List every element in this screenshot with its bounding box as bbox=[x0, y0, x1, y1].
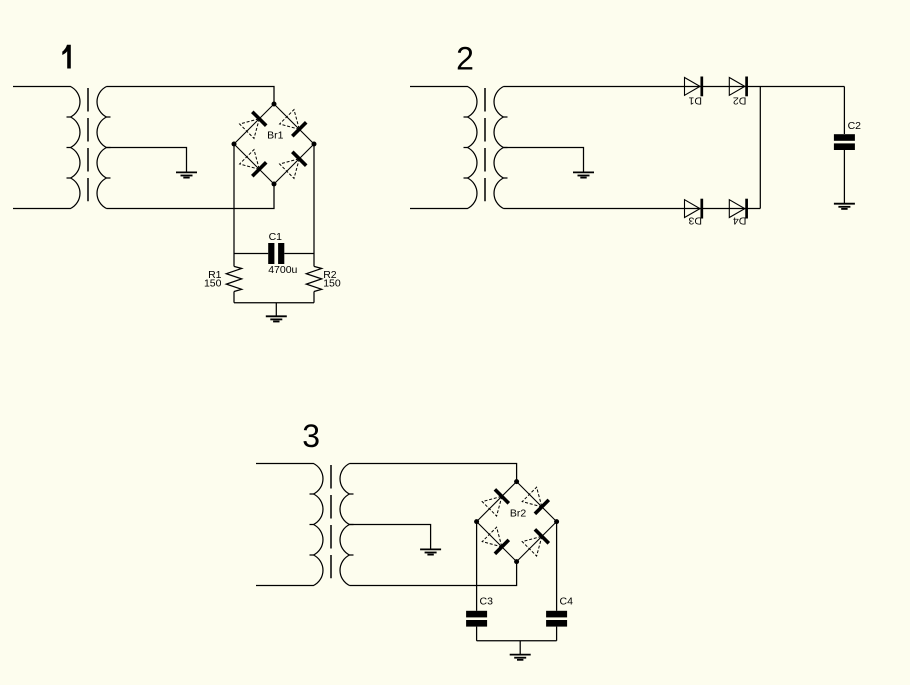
wire Br2 left node to C3 bbox=[476, 522, 478, 611]
bridge diode Br1 bottom-right bbox=[280, 159, 300, 179]
bridge diode Br2 left-bottom bbox=[482, 527, 502, 547]
wire secondary top to bridge Br2 top bbox=[350, 464, 517, 482]
transformer T1 primary winding bbox=[13, 87, 80, 209]
capacitor C4 plates bbox=[546, 611, 567, 618]
wire bottom rail circuit 1 bbox=[234, 302, 314, 304]
wire C2 to ground bbox=[843, 150, 845, 204]
svg-text:150: 150 bbox=[323, 277, 341, 289]
section number 1 bbox=[62, 45, 71, 69]
svg-text:C3: C3 bbox=[480, 596, 494, 608]
wire centre tap T1 to ground bbox=[107, 148, 187, 173]
resistor R1 zigzag bbox=[226, 266, 241, 291]
svg-text:D4: D4 bbox=[733, 215, 747, 227]
wire C4 to bottom rail bbox=[556, 627, 558, 641]
bridge diode Br1 left-bottom bbox=[240, 150, 260, 170]
transformer T3 primary winding bbox=[256, 464, 323, 586]
ground centre-tap circuit 1 bbox=[176, 171, 197, 173]
wire ground stem circuit 1 bbox=[275, 303, 277, 317]
bridge diode Br2 left-top bbox=[482, 496, 502, 516]
wire secondary bottom to bridge Br1 bottom bbox=[107, 184, 275, 209]
svg-text:D3: D3 bbox=[688, 215, 702, 227]
node dots of Br1 bbox=[272, 102, 277, 107]
svg-text:D2: D2 bbox=[733, 95, 747, 107]
transformer T3 secondary winding bbox=[340, 464, 349, 586]
transformer T2 primary winding bbox=[410, 87, 477, 209]
resistor R2 zigzag bbox=[306, 266, 321, 291]
wire to C1 left plate bbox=[234, 253, 268, 255]
svg-text:Br2: Br2 bbox=[510, 508, 527, 520]
wire Br1 left node down bbox=[233, 144, 235, 254]
capacitor C2 plates bbox=[834, 134, 855, 141]
svg-text:4700u: 4700u bbox=[268, 264, 297, 276]
wire Br1 right node down bbox=[313, 144, 315, 254]
ground output circuit 1 bbox=[266, 315, 287, 317]
node dots of Br2 bbox=[514, 479, 519, 484]
transformer T2 secondary winding bbox=[494, 87, 503, 209]
bridge diode Br2 bottom-right bbox=[522, 536, 542, 556]
transformer T1 core bbox=[87, 88, 89, 201]
bridge diode Br1 left-top bbox=[240, 119, 260, 139]
ground centre-tap circuit 3 bbox=[420, 548, 441, 550]
ground output circuit 3 bbox=[510, 654, 531, 656]
bridge Br1 diamond bbox=[234, 104, 314, 184]
wire secondary bottom rail circuit 2 bbox=[504, 208, 761, 210]
diode D1 bbox=[685, 78, 701, 96]
svg-text:Br1: Br1 bbox=[267, 130, 284, 142]
svg-text:150: 150 bbox=[204, 277, 222, 289]
capacitor C3 plates bbox=[466, 611, 487, 618]
transformer T2 core bbox=[484, 88, 486, 201]
bridge diode Br1 top-right bbox=[280, 110, 300, 130]
wire centre tap T3 to ground bbox=[350, 525, 431, 550]
wire R1 top pin bbox=[233, 254, 235, 267]
wire Br2 right node to C4 bbox=[556, 522, 558, 611]
wire to C2 bbox=[843, 87, 845, 135]
wire output bottom rail circuit 3 bbox=[477, 640, 557, 642]
svg-text:D1: D1 bbox=[688, 95, 702, 107]
bridge diode Br2 top-right bbox=[522, 487, 542, 507]
wire ground stem circuit 3 bbox=[519, 641, 521, 655]
wire from C1 right plate bbox=[284, 253, 314, 255]
wire R2 top pin bbox=[313, 254, 315, 267]
diode D3 bbox=[685, 200, 701, 218]
svg-text:3: 3 bbox=[302, 418, 320, 454]
bridge Br2 diamond bbox=[477, 482, 557, 562]
wire R2 bottom pin bbox=[313, 292, 315, 303]
wire R1 bottom pin bbox=[233, 292, 235, 303]
wire secondary bottom to bridge Br2 bottom bbox=[350, 562, 517, 586]
wire secondary top to bridge Br1 top bbox=[107, 87, 275, 105]
wire secondary top rail circuit 2 bbox=[504, 86, 845, 88]
svg-text:2: 2 bbox=[456, 40, 474, 76]
capacitor C1 plates bbox=[268, 243, 274, 264]
diode D4 bbox=[729, 200, 745, 218]
svg-text:C2: C2 bbox=[848, 120, 862, 132]
svg-text:C1: C1 bbox=[269, 231, 283, 243]
wire centre tap T2 to ground bbox=[504, 148, 584, 173]
transformer T3 core bbox=[330, 465, 332, 578]
diode D2 bbox=[729, 78, 745, 96]
svg-text:C4: C4 bbox=[560, 596, 574, 608]
wire C3 to bottom rail bbox=[476, 627, 478, 641]
transformer T1 secondary winding bbox=[97, 87, 106, 209]
ground centre-tap circuit 2 bbox=[573, 171, 594, 173]
wire D2/D4 output junction bbox=[759, 87, 761, 209]
ground C2 ground bbox=[834, 203, 855, 205]
